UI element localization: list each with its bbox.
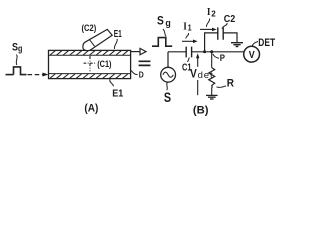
svg-text:C2: C2 <box>224 14 236 25</box>
label (C1) <box>97 59 111 70</box>
label Vdet <box>190 69 213 81</box>
svg-text:(C2): (C2) <box>82 23 97 33</box>
svg-text:(A): (A) <box>84 103 98 115</box>
optic axis mark (crystal C1) dash-dot cross <box>89 56 91 71</box>
label (C2) <box>82 23 97 33</box>
label E1 (bottom) with leader <box>110 79 114 86</box>
AC source S circle <box>161 67 176 82</box>
svg-text:DET: DET <box>258 37 275 49</box>
top electrode E1 strip bottom line <box>49 54 131 56</box>
bottom electrode hatching <box>50 74 128 78</box>
current arrow I1 <box>182 40 194 42</box>
capacitor C2 <box>218 27 223 39</box>
label C2 with leader <box>224 14 236 25</box>
svg-text:E1: E1 <box>112 88 123 100</box>
wire: C2 to ground <box>223 33 237 43</box>
svg-text:det: det <box>198 70 213 81</box>
label I2 with leader <box>207 7 216 18</box>
input signal pulse waveform (A) <box>6 74 14 76</box>
wire: riser down to source S <box>167 52 169 68</box>
label (A) <box>84 103 98 115</box>
label E1 (top) <box>114 28 122 40</box>
svg-text:D: D <box>139 70 144 80</box>
label (B) <box>193 105 209 117</box>
wire: rail from C1 to V meter <box>192 51 244 53</box>
node P junction <box>210 50 213 53</box>
label Sg (panel B) <box>157 16 171 30</box>
svg-text:S: S <box>157 16 164 28</box>
svg-text:E1: E1 <box>114 28 122 40</box>
label Sg (panel A) <box>12 42 22 54</box>
label I1 with leader <box>183 21 192 32</box>
top electrode hatching <box>50 51 128 55</box>
output arrow (modulated light) <box>131 51 140 53</box>
dashed beam line into device <box>28 74 43 76</box>
device D outer box <box>49 50 131 78</box>
wire: resistor to ground <box>210 86 213 95</box>
ground (below R) <box>206 94 218 96</box>
label DET with leader <box>252 42 258 47</box>
svg-text:(B): (B) <box>193 105 209 117</box>
svg-text:1: 1 <box>188 23 192 32</box>
Vdet measure line (lower) <box>197 80 199 95</box>
label D with leader <box>131 70 138 74</box>
wire: C2 branch riser and top run <box>205 33 218 52</box>
svg-text:V: V <box>190 69 197 81</box>
svg-text:g: g <box>18 44 22 54</box>
leader from Sg to pulse <box>15 55 18 66</box>
svg-text:I: I <box>183 21 187 32</box>
crystal rod C2 on top of device <box>83 29 112 50</box>
svg-text:(C1): (C1) <box>97 59 111 70</box>
svg-text:2: 2 <box>211 9 216 18</box>
svg-text:S: S <box>164 90 171 105</box>
input arrowhead <box>43 73 49 77</box>
Vdet measure arrow (top arrowhead) <box>196 53 199 58</box>
label C1 with leader <box>187 58 189 62</box>
bottom electrode E1 strip top line <box>49 73 131 75</box>
leader Sg to pulse <box>163 29 166 37</box>
svg-text:I: I <box>207 7 211 18</box>
svg-text:P: P <box>220 53 226 64</box>
wire: rail from source riser to C1 <box>168 51 186 53</box>
current arrow I2 <box>200 28 213 30</box>
svg-text:g: g <box>165 18 171 29</box>
source pulse waveform (B) <box>152 38 172 47</box>
capacitor C1 <box>186 47 191 58</box>
leader E1 top <box>114 39 117 49</box>
label P with leader <box>213 54 219 58</box>
resistor R <box>209 68 215 86</box>
label S <box>164 90 171 105</box>
svg-text:V: V <box>249 49 255 61</box>
leader to S label <box>166 82 169 90</box>
ground (C2 branch) <box>231 42 243 44</box>
node junction (C2 branch) <box>203 50 206 53</box>
label R with leader <box>217 86 227 88</box>
svg-text:R: R <box>227 77 234 89</box>
wire: P down to resistor <box>211 52 213 68</box>
output beam double lines <box>139 61 151 65</box>
voltmeter V circle <box>244 46 260 62</box>
